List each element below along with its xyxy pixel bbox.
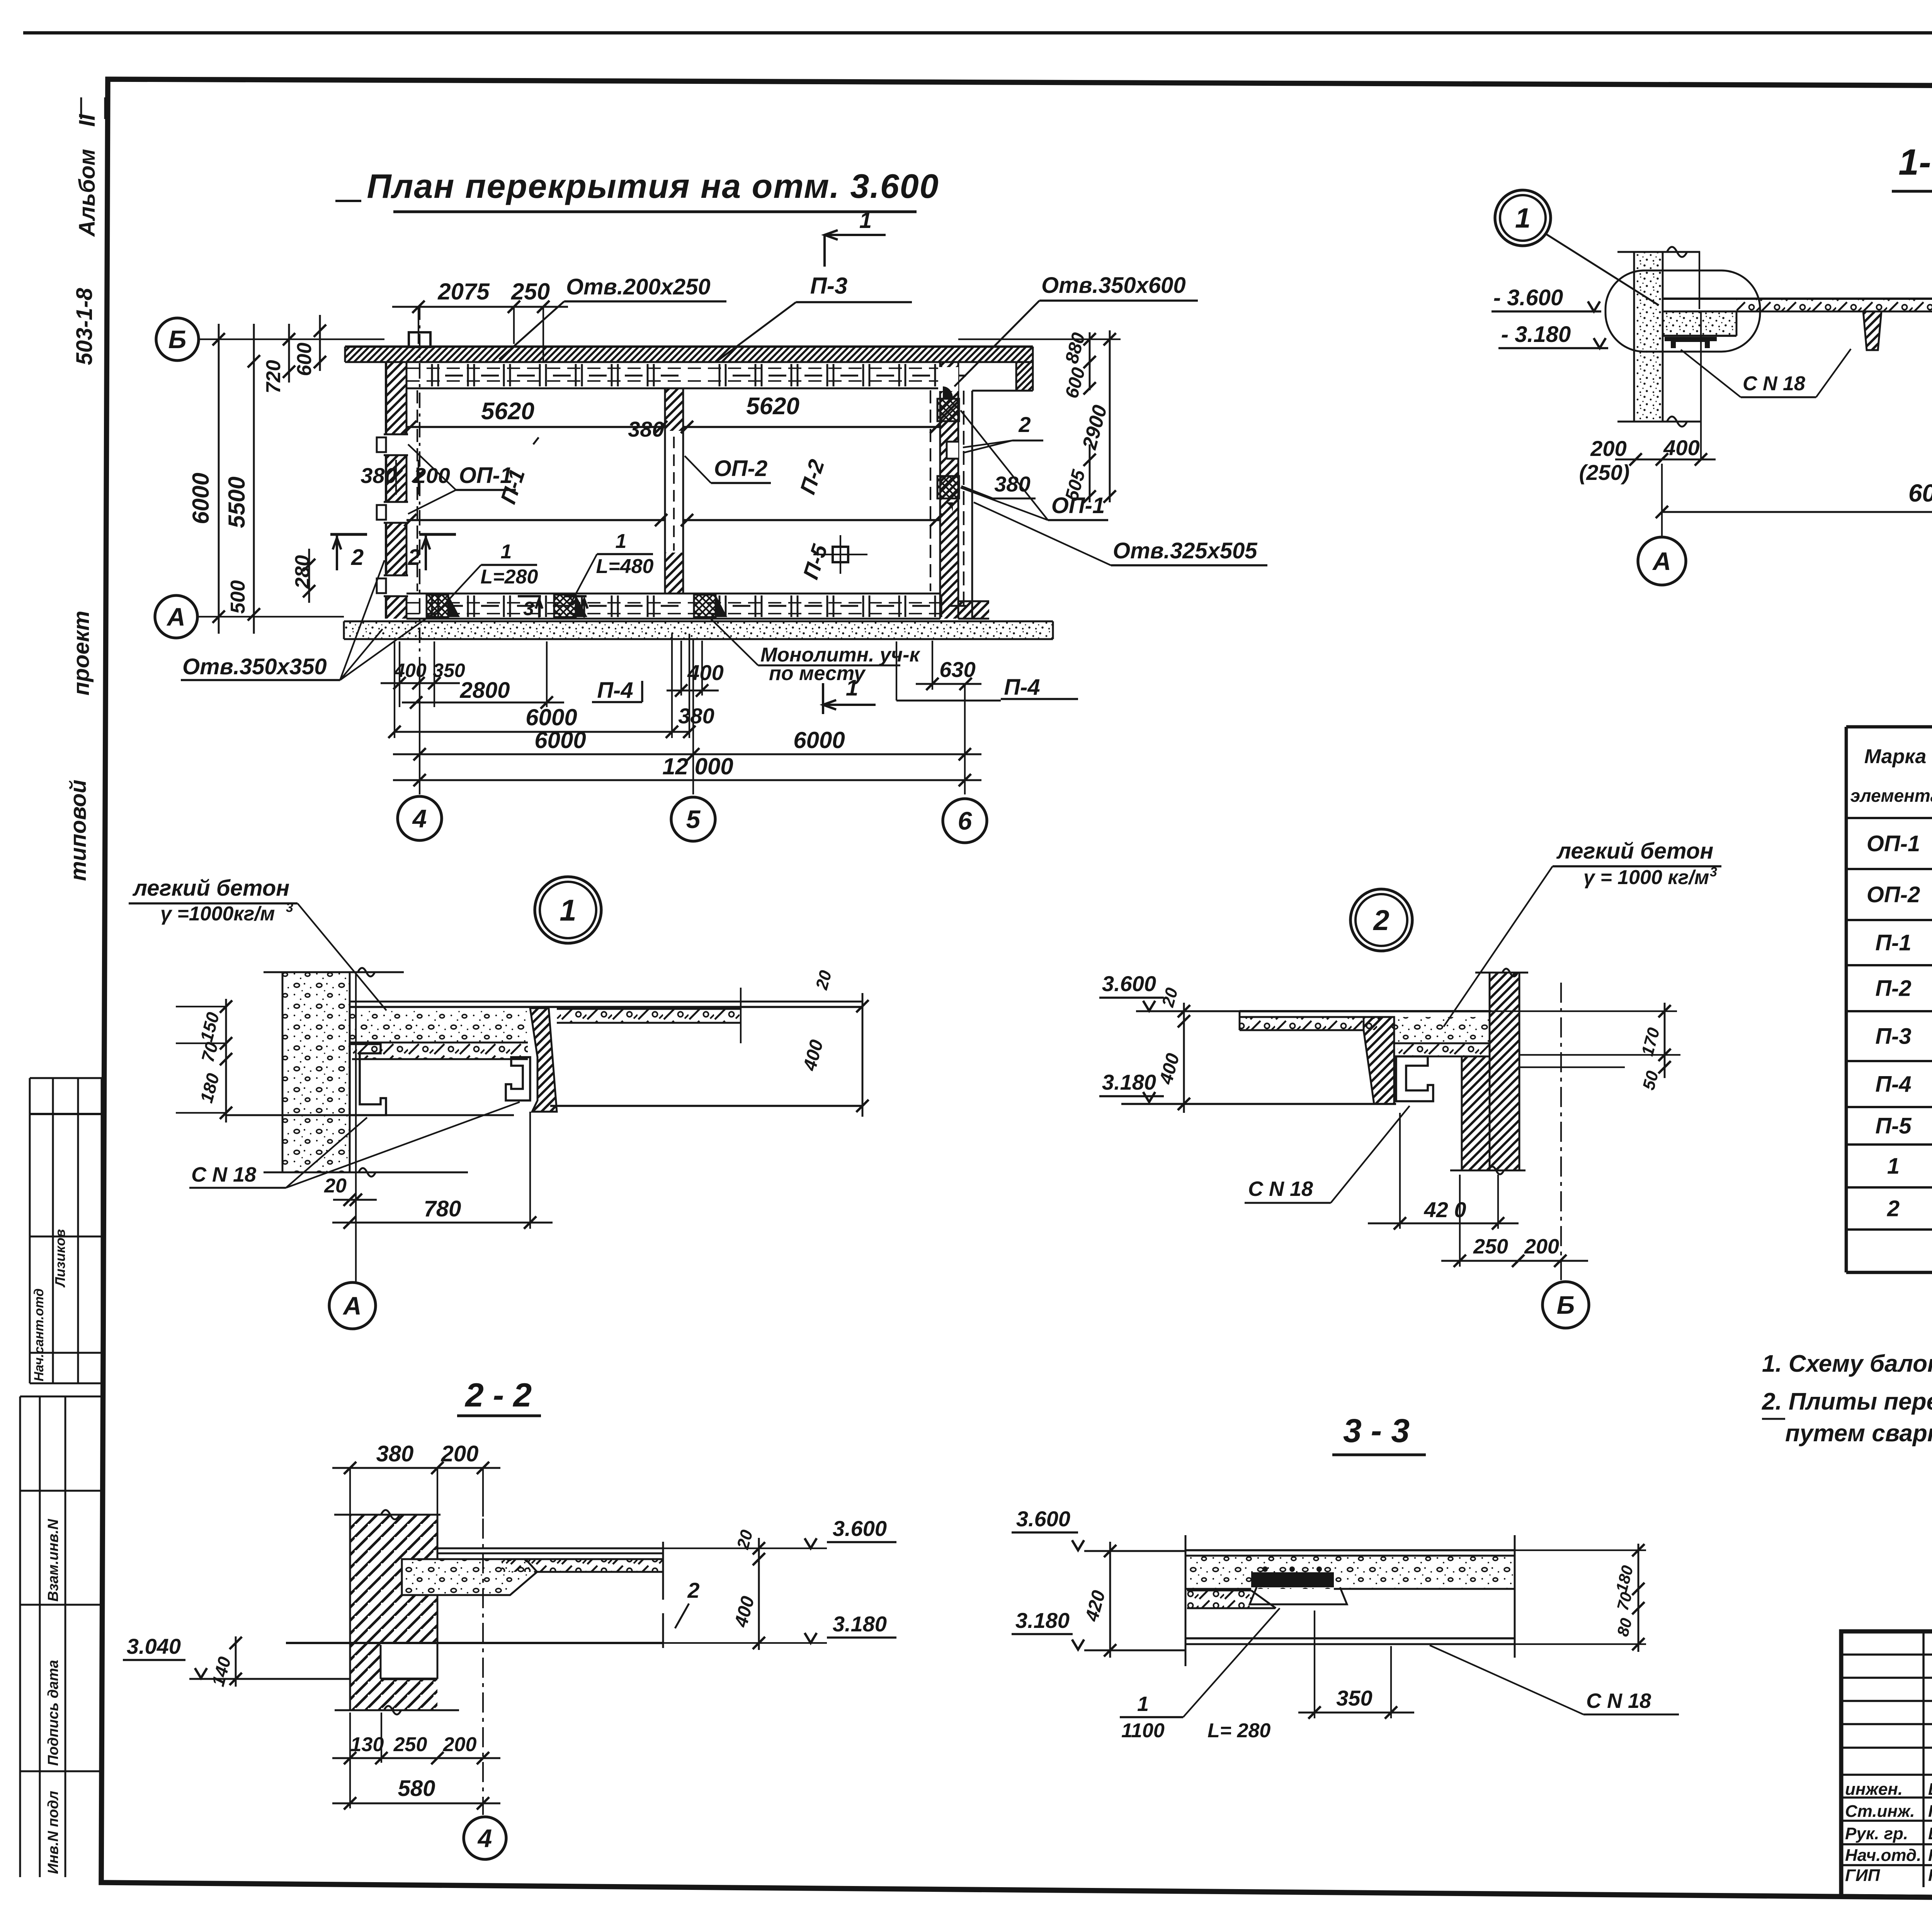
plan: bottom right wall corner foot [958,601,989,619]
svg-text:150: 150 [196,1010,223,1044]
detail 1: right end dims 20 400 [740,988,742,1043]
svg-text:Лизиков: Лизиков [52,1229,68,1288]
section 1-1: screed band with hollow core pattern [1736,299,1932,311]
section 3-3: dim 420 [1109,1542,1111,1658]
svg-text:ГИП: ГИП [1845,1866,1881,1885]
plan: middle wall axis 5 [664,388,666,594]
svg-text:2: 2 [408,545,420,570]
svg-text:легкий бетон: легкий бетон [1556,838,1713,864]
plan: axis 4 line [419,672,420,794]
svg-text:5: 5 [686,805,701,833]
section 1-1: left wall (stippled) [1634,252,1663,422]
detail 2: channel profile C18 [1396,1056,1433,1101]
section 1-1: floor slab top lines [1663,298,1932,300]
svg-text:3.600: 3.600 [1016,1507,1070,1531]
svg-text:420: 420 [1082,1588,1109,1624]
plan: axis line A [197,616,344,617]
svg-text:2075: 2075 [437,279,490,304]
title block frame [1841,1631,1932,1903]
plan: section mark 1 bottom [823,704,876,706]
svg-text:2 - 2: 2 - 2 [464,1377,532,1414]
plan: section mark 2 inside [419,533,456,536]
svg-text:2: 2 [687,1578,699,1602]
svg-text:2. Плиты перекрытия крепить: 2. Плиты перекрытия крепить к опорным по… [1762,1388,1932,1415]
svg-text:5500: 5500 [224,476,250,528]
svg-text:6000: 6000 [526,704,577,730]
svg-text:2: 2 [1018,412,1031,437]
plan: left wall [386,362,406,619]
svg-text:L=480: L=480 [596,555,654,578]
svg-text:2: 2 [1372,904,1389,936]
svg-text:3: 3 [569,598,580,619]
svg-text:180: 180 [196,1071,223,1105]
svg-text:1- 1: 1- 1 [1898,142,1932,183]
svg-text:580: 580 [398,1776,435,1801]
svg-text:Альбом: Альбом [75,149,100,237]
section 3-3: embedded channel plate [1251,1572,1334,1587]
svg-text:Взам.инв.N: Взам.инв.N [45,1519,61,1602]
svg-text:Климов: Климов [1928,1846,1932,1865]
svg-text:250: 250 [393,1733,427,1756]
detail 2: wall inner lower part [1462,1056,1490,1170]
plan dim: 280 500 lower left dims [308,549,310,603]
svg-text:280: 280 [291,555,314,589]
svg-text:- 3.180: - 3.180 [1501,322,1571,347]
svg-text:Отв.325х505: Отв.325х505 [1113,538,1257,563]
section 2-2: lower wall seat and block [381,1679,437,1710]
svg-text:720: 720 [262,360,285,394]
svg-text:400: 400 [799,1037,827,1073]
detail 2: concrete stones region [1394,1017,1490,1043]
svg-text:П-5: П-5 [1875,1114,1912,1139]
plan right dim: 880 600 2900 505 [1089,332,1091,390]
svg-text:380: 380 [628,417,664,441]
svg-text:Подпись дата: Подпись дата [45,1660,61,1766]
section 1-1: detail bubble left [1605,270,1760,352]
section 3-3: right dims 180 70 80 [1638,1544,1639,1652]
svg-text:400: 400 [1663,435,1699,460]
section 1-1: axis circle A [1638,537,1686,585]
svg-text:А: А [342,1291,362,1320]
svg-text:элемента: элемента [1850,786,1932,806]
plan: bottom support pads with black wedges [427,595,448,617]
plan dim: 2075 and 250 top chain [392,306,568,308]
svg-text:630: 630 [939,657,975,682]
plan: small column box on top wall [409,332,430,347]
title block signature grid [1841,1653,1932,1655]
plan: section mark 2 outside left [330,533,367,536]
detail 1: beam edge hatched wedge [530,1008,557,1112]
detail 1: right slab band [557,1009,741,1023]
section 3-3: dim 350 [1298,1712,1414,1714]
section 1-1: dim 6000 with axis circles [1662,511,1932,513]
svg-text:типовой: типовой [66,780,91,881]
plan: axis 5 line [692,640,694,794]
plan: top plank joint band [431,364,433,386]
svg-text:1100: 1100 [1121,1719,1165,1742]
svg-text:3.180: 3.180 [1015,1608,1070,1633]
svg-text:3.180: 3.180 [833,1612,887,1636]
svg-text:3.180: 3.180 [1102,1070,1156,1094]
detail 2: dim 20 400 left [1183,1003,1185,1113]
detail 1: wall concrete column [282,972,350,1172]
svg-text:20: 20 [324,1175,347,1197]
section 2-2: top dim 380 200 [332,1467,500,1469]
svg-text:1: 1 [560,893,576,927]
svg-text:Полякова: Полякова [1928,1802,1932,1821]
svg-text:1: 1 [1887,1154,1900,1179]
svg-text:6000: 6000 [1908,479,1932,507]
detail 1: slab top line [350,1006,862,1008]
svg-text:II: II [75,114,100,127]
svg-text:3 - 3: 3 - 3 [1343,1412,1410,1449]
detail 2: circle mark [1350,889,1412,951]
svg-text:6000: 6000 [188,473,214,524]
margin table upper (approval signatures) [29,1078,31,1383]
svg-text:План перекрытия на отм. 3.600: План перекрытия на отм. 3.600 [367,167,939,205]
margin table lower (inv. no table) [19,1396,21,1877]
svg-text:880: 880 [1061,330,1089,366]
plan dim: extension from axis B left [198,338,200,340]
svg-text:Никитин: Никитин [1928,1866,1932,1885]
svg-text:200: 200 [1590,436,1626,461]
detail 1: axis line and circle A [355,972,357,1282]
svg-text:Отв.350х600: Отв.350х600 [1041,273,1186,298]
svg-text:(250): (250) [1579,460,1630,485]
plan: hidden dashed line along left wall [417,390,418,591]
plan: interior top face line [406,388,940,389]
detail 1: screed hatch layer [352,1043,528,1059]
detail 1: left channel C18 profile [350,1044,386,1115]
svg-text:6: 6 [958,806,973,835]
plan: bottom monolithic strip (concrete) [344,621,1053,639]
svg-text:П-5: П-5 [798,541,832,582]
plan: axis 6 line [964,684,966,794]
plan bottom dim chain row A: 400 350 2800 400 630 [381,682,460,684]
svg-text:L= 280: L= 280 [1207,1719,1270,1742]
plan bottom dim: 12000 row D [393,779,981,781]
svg-text:503-1-8: 503-1-8 [72,287,97,365]
svg-text:Отв.350х350: Отв.350х350 [182,654,327,679]
svg-text:- 3.600: - 3.600 [1493,285,1563,310]
svg-text:80: 80 [1613,1616,1635,1638]
svg-text:200: 200 [1524,1235,1559,1258]
plan: axis circle 5 [671,797,715,841]
svg-text:2: 2 [351,545,364,570]
detail 1: bottom lines of assembly [226,1114,514,1116]
svg-text:П-2: П-2 [1875,976,1911,1001]
svg-text:1. Схему балок перекрытия с: 1. Схему балок перекрытия см. лист АС-26 [1762,1350,1932,1377]
svg-text:γ = 1000 кг/м: γ = 1000 кг/м [1583,866,1709,889]
sheet outer border top line [23,31,1932,35]
section 2-2: slab right end cut [662,1542,664,1600]
section 2-2: dim 580 [332,1803,500,1804]
svg-text:250: 250 [511,279,550,304]
section 2-2: screed hatch band [502,1559,663,1572]
detail 1: circle mark [535,877,601,943]
svg-text:Шайхразова: Шайхразова [1928,1824,1932,1843]
detail 2: dim 250 200 [1441,1260,1588,1262]
svg-text:легкий бетон: легкий бетон [132,876,289,901]
plan: right wall opening pads OP-1 [938,367,958,391]
section 3-3: bottom lines [1185,1637,1515,1639]
detail 1: dim 780 [332,1222,553,1224]
section 1-1: left channel C18 (black) [1665,337,1717,348]
plan: beam P-1 lines left bay with 5620 dim [406,426,665,428]
svg-text:20: 20 [812,968,835,992]
svg-text:400: 400 [1156,1051,1184,1087]
svg-text:А: А [166,602,185,631]
svg-text:2900: 2900 [1078,403,1111,452]
svg-text:1: 1 [859,208,872,233]
plan: axis line B [199,338,384,340]
svg-text:проект: проект [69,611,94,696]
detail 2: dims 170 50 right [1664,1003,1666,1078]
svg-text:250: 250 [1473,1235,1508,1258]
plan: bottom interior face line [406,593,940,595]
svg-text:500: 500 [227,580,249,614]
svg-text:200: 200 [443,1733,477,1756]
parts table frame [1845,727,1848,1272]
svg-text:4: 4 [412,804,427,833]
plan: beam P-2/P-5 lines right bay [683,426,940,428]
plan dim: left vertical chain 6000/5500 [218,324,220,634]
svg-text:Рук. гр.: Рук. гр. [1845,1824,1908,1843]
svg-text:200: 200 [441,1441,479,1466]
detail 2: screed hatch band upper [1240,1017,1394,1030]
svg-text:380: 380 [361,463,396,488]
svg-text:Шакмеева: Шакмеева [1928,1780,1932,1799]
svg-text:4: 4 [477,1824,492,1852]
svg-text:П-2: П-2 [795,456,829,497]
section 2-2: concrete stipple wedge [402,1559,537,1595]
svg-text:1: 1 [1137,1692,1149,1716]
section 2-2: slab bottom line [286,1642,663,1644]
plan: top right overhang corner [1016,362,1033,391]
plan: section mark 1 top [825,234,886,236]
svg-text:Инв.N подл: Инв.N подл [45,1791,61,1874]
svg-text:350: 350 [1336,1686,1372,1710]
plan: bottom plank joint band [431,595,433,617]
svg-text:Б: Б [168,325,187,354]
plan: axis circle 6 [943,799,987,843]
plan: axis circle A [155,595,197,638]
svg-text:L=280: L=280 [481,566,538,588]
svg-text:2: 2 [1887,1196,1900,1221]
plan: left wall openings otv.350x350 [385,434,408,455]
detail 2: beam hatched wedge [1364,1017,1394,1104]
svg-text:Ст.инж.: Ст.инж. [1845,1802,1915,1821]
svg-text:12 000: 12 000 [662,753,733,779]
svg-text:3: 3 [286,900,293,915]
svg-text:С N 18: С N 18 [191,1163,256,1186]
svg-text:20: 20 [1158,986,1182,1009]
svg-text:180: 180 [1612,1563,1637,1594]
svg-text:130: 130 [350,1733,384,1756]
svg-text:3.600: 3.600 [1102,971,1156,996]
detail 1: concrete stones band [350,1009,528,1043]
plan: top edge slab band (P-3 planks) [345,347,1033,362]
plan: hidden dashed line along right wall [930,390,931,591]
plan: right wall outer face lines [971,391,973,619]
detail 2: wall hatched [1490,973,1519,1170]
svg-text:3.600: 3.600 [833,1516,887,1541]
detail 2: screed hatch band lower [1398,1043,1490,1056]
svg-text:путем сварки закладных дета: путем сварки закладных деталей. [1785,1420,1932,1447]
detail 2: slab bottom line [1121,1103,1396,1105]
svg-text:γ =1000кг/м: γ =1000кг/м [160,903,275,925]
svg-text:780: 780 [424,1196,461,1221]
svg-text:П-4: П-4 [597,678,633,703]
svg-text:600: 600 [1061,365,1089,400]
plan: right wall [940,362,958,619]
section 1-1: left support pad concrete [1663,311,1736,336]
svg-text:Марка: Марка [1864,745,1927,768]
plan interior: small square symbol right bay [833,547,848,562]
section 3-3: left screed hatch [1187,1590,1251,1608]
svg-text:380: 380 [678,704,714,728]
svg-text:1: 1 [616,530,627,553]
svg-text:инжен.: инжен. [1845,1780,1903,1799]
svg-text:Отв.200х250: Отв.200х250 [566,274,711,299]
section 2-2: axis and circle 4 [482,1519,484,1815]
svg-text:3: 3 [1710,865,1717,879]
detail 2: axis circle B [1543,1282,1589,1328]
svg-text:Нач.отд.: Нач.отд. [1845,1846,1921,1865]
svg-text:380: 380 [376,1441,414,1466]
plan: axis circle 4 [398,796,442,840]
svg-text:А: А [1652,547,1671,575]
svg-text:Нач.сант.отд: Нач.сант.отд [32,1288,46,1381]
plan: axis circle B [156,318,199,361]
section 2-2: slab top lines [437,1548,663,1549]
svg-text:400: 400 [687,660,723,685]
section 2-2: bottom dims 130 250 200 [332,1757,500,1759]
detail 2: axis dash-dot [1560,983,1562,1280]
svg-text:600: 600 [293,343,316,376]
detail 2: slab top line [1240,1010,1492,1012]
svg-text:С N 18: С N 18 [1586,1689,1651,1713]
svg-text:ОП-1: ОП-1 [1867,831,1920,856]
plan bottom dim: 6000 + 380 row B [395,731,689,733]
svg-text:5620: 5620 [481,398,534,425]
svg-text:С N 18: С N 18 [1743,372,1805,395]
section 2-2: lower wall left leg [350,1643,381,1710]
svg-text:ОП-2: ОП-2 [1867,882,1920,907]
section 2-2: right dim 20 400 [758,1538,760,1650]
svg-text:П-3: П-3 [1875,1024,1911,1049]
plan dim: 720 600 small left dims [288,324,290,383]
svg-text:400: 400 [731,1594,759,1629]
svg-text:П-1: П-1 [1875,930,1911,956]
section 3-3: slab body [1185,1535,1187,1666]
section 2-2: wall hatched with slab notch [350,1515,437,1643]
section 2-2: dim 140 [235,1636,237,1687]
svg-text:6000: 6000 [534,727,586,753]
detail 1: right channel C18 profile [506,1057,530,1100]
svg-text:3: 3 [523,598,534,619]
svg-text:С N 18: С N 18 [1248,1177,1313,1201]
svg-text:ОП-2: ОП-2 [714,456,767,481]
svg-text:П-3: П-3 [810,273,848,299]
svg-text:2800: 2800 [459,678,510,703]
svg-text:5620: 5620 [746,393,799,420]
svg-text:П-4: П-4 [1875,1072,1911,1097]
plan bottom dim: 6000 6000 row C [393,753,981,755]
detail 1: left dims 150 70 180 [225,999,227,1122]
svg-text:Б: Б [1557,1291,1575,1319]
svg-text:3.040: 3.040 [127,1634,181,1658]
section 1-1: rib 1 of slab [1863,311,1881,350]
svg-text:170: 170 [1638,1026,1663,1058]
svg-text:6000: 6000 [793,727,845,753]
section 1-1: detail circle 1 [1495,190,1551,246]
svg-text:1: 1 [501,541,512,563]
svg-text:1: 1 [1515,203,1531,234]
svg-text:П-4: П-4 [1004,675,1040,700]
